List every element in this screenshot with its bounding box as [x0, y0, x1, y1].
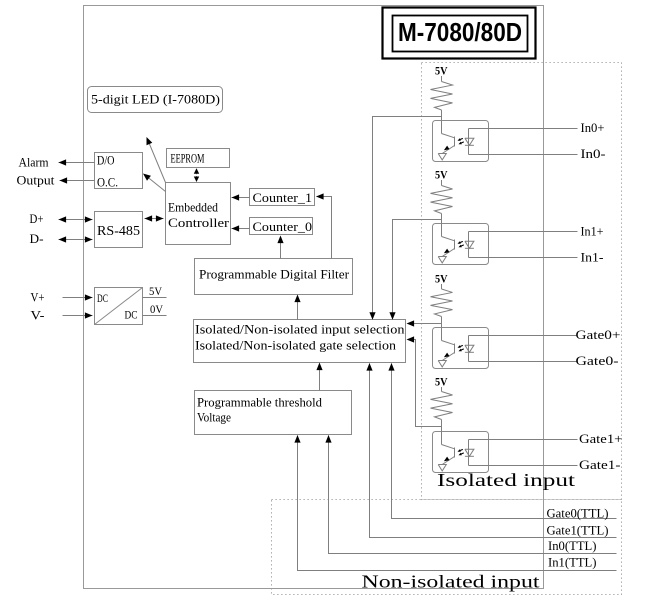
svg-text:In0+: In0+ [581, 120, 605, 135]
svg-text:Isolated/Non-isolated input se: Isolated/Non-isolated input selection [195, 323, 405, 337]
wire filter to Counter_0 [277, 236, 283, 259]
svg-text:5V: 5V [435, 272, 448, 286]
isolated-input dashed boundary [422, 63, 622, 500]
resistor pull-up In0 [431, 82, 453, 111]
phototransistor of Gate0 [438, 328, 454, 367]
svg-text:5V: 5V [435, 64, 448, 78]
phototransistor of In1 [438, 224, 454, 263]
svg-text:Voltage: Voltage [197, 411, 231, 425]
label In0- [581, 146, 606, 161]
label Non-isolated input [362, 572, 540, 592]
svg-text:5V: 5V [435, 168, 448, 182]
svg-text:Alarm: Alarm [19, 155, 49, 170]
wire Gate1+ terminal [469, 439, 578, 441]
wire 5V feed Gate0 [441, 284, 443, 289]
wire In0+ terminal [469, 128, 578, 130]
wire 0V rail stub [143, 315, 167, 317]
label Output [17, 173, 55, 188]
light coupling arrows In0 [458, 138, 464, 144]
wire In0(TTL) [325, 435, 616, 554]
svg-text:V+: V+ [31, 290, 45, 305]
svg-text:D+: D+ [30, 211, 44, 226]
svg-text:RS-485: RS-485 [97, 224, 140, 239]
block Counter_1 [250, 189, 315, 206]
wire 5V feed Gate1 [441, 387, 443, 392]
svg-text:Gate1-: Gate1- [579, 457, 621, 472]
block Embedded Controller [166, 183, 231, 245]
svg-text:Gate1+: Gate1+ [579, 431, 623, 446]
svg-text:Isolated input: Isolated input [437, 470, 575, 490]
wire controller to LED display diagonal [147, 137, 166, 183]
wire V+ input [63, 294, 93, 300]
wire In0- terminal [469, 154, 578, 156]
optocoupler In0 package [433, 121, 489, 162]
svg-text:5-digit LED (I-7080D): 5-digit LED (I-7080D) [91, 92, 220, 107]
wire 5V feed In0 [441, 76, 443, 82]
resistor pull-up Gate1 [431, 392, 453, 420]
label Gate1- [579, 457, 621, 472]
wire In0 tap to selection [369, 117, 441, 320]
label Isolated input [437, 470, 575, 490]
block DC/DC converter [95, 288, 143, 325]
svg-text:Non-isolated input: Non-isolated input [362, 572, 540, 592]
light coupling arrows In1 [458, 241, 464, 247]
svg-text:DC: DC [125, 308, 138, 322]
wire In1- terminal [469, 257, 578, 259]
block RS-485 [95, 212, 143, 248]
label Alarm [19, 155, 49, 170]
label D+ [30, 211, 44, 226]
svg-text:Gate1(TTL): Gate1(TTL) [547, 524, 609, 538]
block 5-digit LED display [88, 87, 223, 113]
optocoupler Gate1 package [433, 432, 489, 473]
wire D- bidirectional [59, 236, 93, 242]
svg-text:D-: D- [30, 231, 44, 246]
svg-text:Controller: Controller [168, 215, 230, 230]
label D- [30, 231, 44, 246]
svg-text:V-: V- [31, 308, 45, 323]
wire In1+ terminal [469, 231, 578, 233]
wire Gate1- terminal [469, 465, 578, 467]
label In0+ [581, 120, 605, 135]
label In1+ [581, 224, 604, 239]
wire resistor to optocoupler Gate0 [441, 317, 443, 328]
label 0V dc output [150, 302, 163, 316]
svg-text:Programmable Digital Filter: Programmable Digital Filter [199, 268, 350, 282]
svg-text:0V: 0V [150, 302, 163, 316]
wire Counter_0 to controller [232, 225, 251, 231]
label Gate0(TTL) [547, 507, 609, 521]
svg-text:5V: 5V [435, 375, 448, 389]
wire 5V feed In1 [441, 180, 443, 186]
input LED of In0 [465, 129, 474, 155]
wire Counter_1 to controller [232, 194, 251, 200]
outer module border [84, 6, 544, 589]
label 5V dc output [149, 284, 162, 298]
wire selection to filter [294, 295, 300, 321]
optocoupler In1 package [433, 224, 489, 265]
phototransistor of In0 [438, 121, 454, 160]
wire filter to Counter_1 [316, 193, 332, 258]
wire Gate1(TTL) [366, 363, 616, 538]
label In1(TTL) [548, 556, 597, 570]
wire resistor to optocoupler In1 [441, 214, 443, 224]
svg-text:In1-: In1- [581, 250, 604, 265]
block Programmable Digital Filter [195, 259, 353, 295]
input LED of In1 [465, 232, 474, 258]
svg-text:DC: DC [97, 291, 108, 305]
title box M-7080/80D [383, 8, 536, 59]
svg-text:In0-: In0- [581, 146, 606, 161]
svg-text:In1+: In1+ [581, 224, 604, 239]
label 5V pull-up In0 [435, 64, 448, 78]
svg-text:D/O: D/O [97, 153, 115, 168]
svg-text:Output: Output [17, 173, 55, 188]
svg-text:O.C.: O.C. [97, 175, 118, 190]
wire 5V rail stub [143, 297, 167, 299]
input LED of Gate0 [465, 336, 474, 362]
block Programmable threshold Voltage [195, 391, 352, 435]
wire EEPROM-controller dashed link [194, 168, 199, 182]
block Counter_0 [250, 218, 313, 235]
block EEPROM [167, 149, 230, 168]
wire RS-485 to controller bidirectional [145, 215, 164, 221]
light coupling arrows Gate1 [458, 449, 464, 455]
label In1- [581, 250, 604, 265]
label In0(TTL) [548, 539, 597, 553]
svg-text:In0(TTL): In0(TTL) [548, 539, 597, 553]
block D/O O.C. [95, 153, 143, 190]
wire In1 tap to selection [389, 220, 441, 320]
label V+ [31, 290, 45, 305]
non-isolated-input dashed boundary [272, 500, 622, 595]
wire resistor to optocoupler Gate1 [441, 420, 443, 432]
wire Gate0+ terminal [469, 335, 578, 337]
label Gate0+ [576, 327, 621, 342]
svg-text:Isolated/Non-isolated gate sel: Isolated/Non-isolated gate selection [195, 339, 397, 353]
svg-text:5V: 5V [149, 284, 162, 298]
input LED of Gate1 [465, 440, 474, 466]
wire D+ bidirectional [59, 216, 93, 222]
wire Output line [60, 177, 95, 183]
resistor pull-up Gate0 [431, 289, 453, 317]
svg-text:Programmable threshold: Programmable threshold [197, 396, 323, 410]
wire controller to D/O diagonal [143, 174, 166, 192]
svg-text:In1(TTL): In1(TTL) [548, 556, 597, 570]
wire Gate1 tap to selection [407, 336, 442, 426]
label V- [31, 308, 45, 323]
svg-text:Gate0-: Gate0- [576, 353, 619, 368]
svg-text:Counter_0: Counter_0 [253, 219, 313, 234]
optocoupler Gate0 package [433, 328, 489, 369]
wire V- input [63, 312, 93, 318]
svg-text:M-7080/80D: M-7080/80D [398, 17, 522, 47]
phototransistor of Gate1 [438, 432, 454, 471]
wire Alarm output [59, 159, 95, 165]
svg-text:Embedded: Embedded [168, 200, 218, 215]
svg-text:Gate0+: Gate0+ [576, 327, 621, 342]
wire Gate0 tap to selection [407, 320, 442, 326]
svg-text:Counter_1: Counter_1 [253, 190, 313, 205]
label Gate0- [576, 353, 619, 368]
wire In1(TTL) [294, 435, 616, 571]
svg-text:Gate0(TTL): Gate0(TTL) [547, 507, 609, 521]
label Gate1+ [579, 431, 623, 446]
wire threshold to selection [316, 363, 322, 391]
label 5V pull-up Gate0 [435, 272, 448, 286]
label 5V pull-up Gate1 [435, 375, 448, 389]
svg-text:EEPROM: EEPROM [171, 151, 205, 166]
wire Gate0- terminal [469, 361, 578, 363]
wire Gate0(TTL) [388, 363, 616, 519]
resistor pull-up In1 [431, 186, 453, 214]
light coupling arrows Gate0 [458, 345, 464, 351]
block input/gate selection [194, 320, 406, 363]
label Gate1(TTL) [547, 524, 609, 538]
label 5V pull-up In1 [435, 168, 448, 182]
wire resistor to optocoupler In0 [441, 110, 443, 121]
